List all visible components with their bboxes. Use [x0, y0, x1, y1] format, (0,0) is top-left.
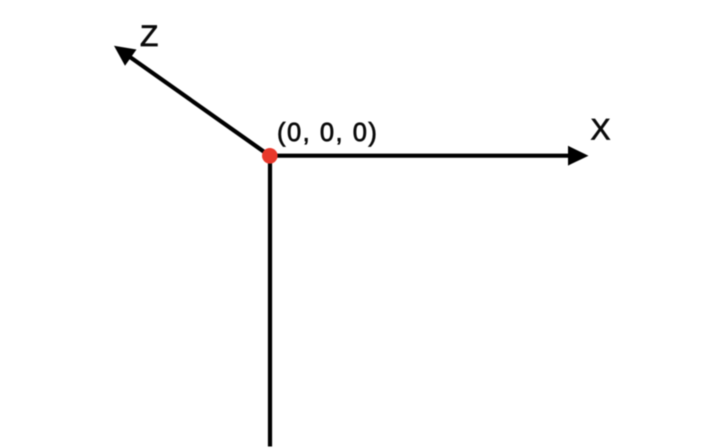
Z axis line [127, 55, 270, 156]
X axis arrowhead [568, 146, 589, 166]
svg-text:Z: Z [140, 20, 158, 53]
X axis line [270, 154, 572, 158]
origin point [262, 148, 278, 164]
vertical axis line (Y) [268, 156, 272, 447]
svg-text:X: X [591, 114, 611, 147]
Z axis arrowhead [114, 46, 137, 66]
svg-text:(0, 0, 0): (0, 0, 0) [277, 119, 378, 147]
